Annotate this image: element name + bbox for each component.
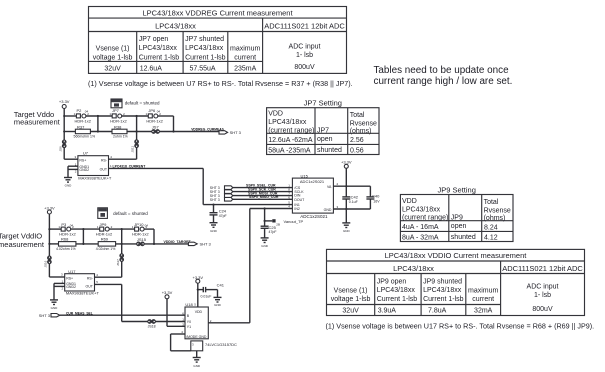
power +3.3V (ADC VA) (341, 160, 352, 197)
svg-text:LPC4318_CURRENT: LPC4318_CURRENT (113, 165, 147, 169)
svg-text:+3.3V: +3.3V (59, 99, 70, 104)
svg-text:SSP0_MISO_CUR: SSP0_MISO_CUR (249, 195, 279, 199)
wire CUR_MEAS_SEL (60, 314, 185, 316)
pin numbers IN1 IN2 (288, 201, 290, 209)
svg-text:SHT 3: SHT 3 (39, 313, 51, 318)
wire top row lower (49, 228, 154, 230)
svg-text:P3: P3 (61, 222, 67, 227)
ground C25 (261, 238, 269, 248)
wire vertical junction B (136, 116, 138, 132)
svg-text:(ohms): (ohms) (350, 128, 372, 135)
svg-text:Total: Total (350, 112, 365, 119)
svg-text:Y1: Y1 (187, 325, 191, 329)
ground C24 (210, 223, 218, 233)
wire bottom row lower (49, 243, 188, 245)
op-amp U17 current sense amp (65, 269, 100, 296)
resistor R37 (74, 125, 96, 139)
svg-text:GND2: GND2 (79, 168, 89, 172)
svg-text:HDR-1x2: HDR-1x2 (132, 232, 149, 237)
jumper JS18 (148, 320, 156, 329)
ground U7 (64, 178, 72, 188)
table: JP9 Setting (400, 185, 513, 241)
svg-text:SHT 3: SHT 3 (200, 242, 212, 247)
svg-text:8.24: 8.24 (484, 225, 498, 232)
ADC U15 ADC1x2S021 (292, 173, 333, 219)
jumper JS11 (131, 132, 139, 160)
capacitor C41 (198, 282, 225, 298)
wire IN1 to ADC (203, 204, 292, 206)
svg-text:74LVC1G3157DC: 74LVC1G3157DC (205, 342, 237, 347)
resistor R69 (96, 237, 116, 252)
svg-text:measurement: measurement (14, 117, 61, 126)
svg-text:LPC43/18xx: LPC43/18xx (139, 45, 178, 52)
svg-text:0.1uF: 0.1uF (349, 200, 358, 204)
svg-text:32uV: 32uV (342, 308, 359, 315)
svg-text:JP9: JP9 (100, 222, 108, 227)
svg-text:VDD: VDD (402, 198, 417, 205)
node C41 junction (197, 289, 199, 291)
resistor R68 (56, 237, 76, 252)
svg-text:RS+: RS+ (66, 277, 73, 281)
label: Target Vddo measurement (14, 110, 61, 126)
svg-text:Total: Total (484, 199, 499, 206)
svg-text:GND: GND (199, 335, 207, 339)
wire IN2 vertical from U18 (249, 209, 251, 323)
capacitor C40 (366, 186, 380, 209)
svg-text:LPC43/18xx: LPC43/18xx (268, 119, 307, 126)
svg-text:(1) Vsense voltage is between: (1) Vsense voltage is between U17 RS+ to… (326, 321, 595, 330)
label: Target VddIO measurement (0, 232, 45, 249)
svg-text:default = shunted: default = shunted (125, 100, 160, 105)
node VA junction (345, 185, 347, 187)
svg-text:8uA - 32mA: 8uA - 32mA (402, 235, 439, 242)
wire U17 gnd pins (54, 279, 65, 300)
svg-text:800uV: 800uV (294, 64, 315, 71)
shunt icon JP7 (111, 99, 122, 108)
svg-text:LPC43/18xx: LPC43/18xx (185, 45, 224, 52)
op-amp U7 current sense amp (78, 151, 112, 181)
svg-text:(ohms): (ohms) (484, 215, 506, 222)
capacitor C24 (210, 205, 227, 223)
svg-text:12.6uA: 12.6uA (140, 66, 163, 73)
svg-text:16V: 16V (373, 200, 380, 204)
svg-text:0.01uF: 0.01uF (201, 295, 212, 299)
svg-text:JP9 shunted: JP9 shunted (423, 279, 462, 286)
svg-text:maximum: maximum (468, 288, 499, 295)
jumper JS17 (116, 254, 124, 266)
svg-text:4uA - 16mA: 4uA - 16mA (402, 224, 439, 231)
svg-text:Vanout_TP: Vanout_TP (284, 219, 304, 224)
svg-text:Current 1-lsb: Current 1-lsb (139, 54, 180, 61)
svg-text:JP7: JP7 (317, 127, 329, 134)
capacitor C25 (261, 225, 277, 238)
wire vertical right end lower (153, 229, 155, 244)
svg-text:0.56: 0.56 (350, 148, 364, 155)
capacitor C42 (342, 195, 358, 210)
wire bottom row upper (64, 131, 219, 133)
node junction dots upper (63, 115, 174, 133)
svg-text:JP7 Setting: JP7 Setting (304, 99, 342, 108)
svg-text:voltage 1-lsb: voltage 1-lsb (93, 54, 133, 61)
svg-text:ADC111S021 12bit ADC: ADC111S021 12bit ADC (264, 22, 345, 31)
wire SSP0_SCK_CUR (233, 187, 293, 191)
svg-text:7.8uA: 7.8uA (428, 308, 447, 315)
table: LPC43/18xx VDDREG Current measurement (89, 7, 347, 74)
resistor R38 (112, 125, 128, 139)
svg-text:C41: C41 (217, 282, 225, 287)
svg-text:VA: VA (327, 185, 332, 189)
jumper JP6 (146, 108, 164, 124)
svg-text:JP7 shunted: JP7 shunted (185, 36, 224, 43)
wire SSP0_MISO_CUR (233, 195, 293, 199)
svg-text:voltage 1-lsb: voltage 1-lsb (331, 296, 371, 303)
svg-text:U7: U7 (83, 151, 89, 156)
svg-text:32mA: 32mA (474, 308, 493, 315)
svg-text:HDR-1x2: HDR-1x2 (75, 119, 92, 124)
svg-text:ADC1x2S021: ADC1x2S021 (300, 179, 325, 184)
jumper JS16 (44, 256, 52, 267)
ground ADC (342, 209, 350, 233)
svg-text:Vsense (1): Vsense (1) (96, 46, 130, 53)
svg-text:JS11: JS11 (131, 146, 135, 153)
svg-text:RS-: RS- (101, 159, 108, 163)
svg-text:current range high / low are s: current range high / low are set. (374, 76, 513, 87)
svg-text:LPC43/18xx: LPC43/18xx (377, 287, 416, 294)
svg-text:VDD: VDD (195, 310, 203, 314)
power +3.3V (upper rail) (59, 99, 70, 108)
sheet flags SPI (SHT 3) (210, 186, 233, 202)
net CUR_MEAS_SEL input flag (39, 311, 93, 318)
svg-text:shunted: shunted (317, 147, 342, 154)
svg-text:ADC input: ADC input (527, 284, 559, 291)
svg-text:2B: 2B (276, 222, 280, 226)
svg-text:VDDIO_TARGET: VDDIO_TARGET (164, 240, 192, 244)
svg-text:GND: GND (214, 303, 222, 307)
svg-text:LPC43/18xx: LPC43/18xx (423, 287, 462, 294)
shunt icon JP9 (98, 208, 108, 219)
svg-text:GND: GND (261, 244, 269, 248)
svg-text:VDD: VDD (268, 111, 283, 118)
svg-text:/MODE: /MODE (186, 335, 198, 339)
svg-text:LPC43/18xx VDDREG Current meas: LPC43/18xx VDDREG Current measurement (142, 9, 293, 18)
node junction dots lower (48, 228, 155, 245)
svg-text:RS-: RS- (87, 277, 94, 281)
svg-text:Y0: Y0 (187, 320, 191, 324)
svg-text:MAX9938TEUK+T: MAX9938TEUK+T (66, 291, 100, 296)
svg-text:HDR-1x2: HDR-1x2 (146, 119, 163, 124)
svg-text:4.12: 4.12 (484, 235, 498, 242)
svg-text:U15: U15 (301, 173, 309, 178)
jumper JS7 (152, 125, 160, 134)
wire RS- into U17 (95, 273, 122, 277)
wire vertical junction C (82, 229, 84, 244)
svg-text:JP7 open: JP7 open (139, 36, 169, 43)
svg-text:maximum: maximum (230, 46, 261, 53)
wire vertical junction D (121, 229, 123, 277)
svg-text:shunted: shunted (451, 234, 476, 241)
svg-text:2ohm 1%: 2ohm 1% (113, 134, 128, 138)
wire U7 gnd pins (68, 162, 78, 177)
mux U18 74LVC1G3157DC (182, 302, 208, 339)
svg-text:JP9 Setting: JP9 Setting (438, 185, 476, 194)
svg-text:OUT: OUT (100, 167, 108, 171)
svg-text:open: open (317, 136, 333, 143)
wire /MODE loop (171, 330, 191, 351)
svg-text:Current 1-lsb: Current 1-lsb (377, 296, 418, 303)
svg-text:C24: C24 (219, 209, 227, 214)
svg-text:U18: U18 (185, 302, 193, 307)
svg-text:GND: GND (65, 184, 73, 188)
svg-text:560mohm 1%: 560mohm 1% (74, 134, 96, 138)
svg-text:SHT 3: SHT 3 (230, 130, 242, 135)
svg-text:Current 1-lsb: Current 1-lsb (423, 296, 464, 303)
svg-text:RS+: RS+ (79, 159, 86, 163)
svg-text:JP9 open: JP9 open (377, 279, 407, 286)
node GND junction (345, 208, 347, 210)
svg-text:measurement: measurement (0, 240, 45, 249)
jumper JP10 (132, 222, 150, 237)
svg-text:ADC input: ADC input (289, 44, 321, 51)
svg-text:U17: U17 (68, 269, 76, 274)
wire vertical right end upper (173, 116, 175, 132)
svg-text:JS17: JS17 (116, 259, 120, 266)
svg-text:GND: GND (193, 364, 201, 368)
svg-text:JS18: JS18 (148, 325, 156, 329)
wire U18 output to ADC IN2 (208, 319, 250, 323)
svg-text:LPC43/18xx: LPC43/18xx (402, 206, 441, 213)
wire RS- into U7 (109, 155, 137, 159)
net VDDIO_TARGET flag (164, 240, 212, 247)
wire RS+ into U17 (49, 273, 64, 277)
svg-text:ADC1x2S021: ADC1x2S021 (300, 214, 328, 219)
wire top row upper (64, 115, 173, 117)
svg-text:default = shunted: default = shunted (113, 211, 148, 216)
svg-text:(current range): (current range) (402, 215, 448, 222)
wire SSP0_SSEL_CUR (233, 183, 293, 187)
jumper JP9 (96, 222, 113, 237)
table: JP7 Setting (267, 99, 379, 155)
node C24 junction (212, 204, 214, 206)
node IN2 branch (264, 207, 266, 209)
power +3.3V (U18 input) (162, 290, 185, 326)
ground U17 (50, 300, 58, 310)
wire SSP0_MOSI_CUR (233, 191, 293, 195)
svg-text:GND: GND (324, 208, 332, 212)
ground U18 (193, 351, 201, 368)
svg-text:Vsense (1): Vsense (1) (334, 288, 368, 295)
svg-text:235mA: 235mA (234, 66, 257, 73)
svg-text:1- lsb: 1- lsb (534, 292, 551, 299)
svg-text:DOUT: DOUT (294, 198, 305, 202)
wire JS18 row (122, 321, 185, 323)
svg-text:Rvsense: Rvsense (350, 121, 377, 128)
svg-text:ADC111S021 12bit ADC: ADC111S021 12bit ADC (502, 264, 583, 273)
svg-text:58uA -235mA: 58uA -235mA (268, 148, 311, 155)
svg-text:LPC43/18xx: LPC43/18xx (393, 264, 434, 273)
svg-text:current: current (472, 296, 494, 303)
jumper JP7 (109, 108, 127, 124)
svg-text:Rvsense: Rvsense (484, 208, 511, 215)
svg-text:(current range): (current range) (268, 127, 314, 134)
svg-text:+3.3V: +3.3V (162, 290, 173, 295)
svg-text:57.55uA: 57.55uA (190, 66, 216, 73)
svg-text:GND2: GND2 (66, 285, 76, 289)
svg-text:47pF: 47pF (269, 230, 277, 234)
wire left rail upper (63, 109, 65, 160)
svg-text:MAX9938TEUK+T: MAX9938TEUK+T (78, 176, 112, 181)
wire RS+ into U7 (64, 155, 78, 159)
svg-text:R68: R68 (61, 237, 69, 242)
svg-text:IN2: IN2 (294, 207, 300, 211)
power +3.3V (lower rail) (44, 206, 55, 215)
svg-text:JP7: JP7 (112, 108, 120, 113)
svg-text:JP6: JP6 (148, 108, 156, 113)
svg-text:12.6uA -62mA: 12.6uA -62mA (268, 137, 313, 144)
net VDDREG_CURMEAS flag (191, 127, 241, 135)
svg-text:GND: GND (343, 229, 351, 233)
wire IN2 to ADC (250, 208, 293, 210)
ground C41 (214, 290, 222, 308)
wire VA (333, 182, 370, 186)
svg-text:800uV: 800uV (532, 306, 553, 313)
svg-text:current: current (234, 54, 256, 61)
svg-text:Current 1-lsb: Current 1-lsb (185, 54, 226, 61)
svg-text:JP10: JP10 (134, 222, 144, 227)
power +3.3V (U18 VDD) (193, 275, 204, 307)
table: LPC43/18xx VDDIO Current measurement (327, 249, 585, 315)
wire U17 OUT down (95, 280, 122, 321)
svg-text:(1) Vsense voltage is between: (1) Vsense voltage is between U7 RS+ to … (88, 79, 353, 88)
svg-text:LPC43/18xx VDDIO Current measu: LPC43/18xx VDDIO Current measurement (385, 251, 528, 260)
svg-text:C42: C42 (351, 195, 359, 200)
sub-box U18 pad (191, 341, 203, 351)
svg-text:LPC43/18xx: LPC43/18xx (155, 22, 196, 31)
svg-text:4.02ohm 1%: 4.02ohm 1% (96, 247, 116, 251)
svg-text:4.02ohm 1%: 4.02ohm 1% (56, 247, 76, 251)
svg-text:P2: P2 (77, 108, 83, 113)
wire U7 OUT net LPC4318_CURR (109, 164, 204, 204)
wire ADC GND (333, 205, 370, 209)
svg-text:47pF: 47pF (219, 214, 227, 218)
jumper P2 (74, 108, 92, 124)
svg-text:open: open (451, 223, 467, 230)
wire IN2 stub down (264, 209, 266, 227)
svg-text:C40: C40 (372, 194, 380, 199)
svg-text:2.56: 2.56 (350, 137, 364, 144)
svg-text:Tables need to be update once: Tables need to be update once (374, 65, 510, 76)
svg-text:JS15: JS15 (137, 237, 147, 242)
svg-text:JS16: JS16 (44, 260, 48, 267)
svg-text:OUT: OUT (86, 284, 94, 288)
jumper JS15 (137, 237, 147, 246)
wire vertical junction A (97, 116, 99, 132)
svg-text:HDR-1x2: HDR-1x2 (110, 119, 127, 124)
svg-text:32uV: 32uV (104, 66, 121, 73)
jumper P3 (58, 222, 76, 237)
svg-text:GND: GND (210, 229, 218, 233)
svg-text:JP9: JP9 (451, 215, 463, 222)
test point Vanout_TP (264, 219, 304, 226)
svg-text:SHT 3: SHT 3 (210, 198, 220, 202)
svg-text:JS6: JS6 (58, 146, 62, 152)
svg-text:GND: GND (51, 306, 59, 310)
svg-text:JS7: JS7 (152, 125, 160, 130)
wire left rail lower (48, 214, 50, 277)
svg-text:1- lsb: 1- lsb (296, 52, 313, 59)
svg-text:R69: R69 (101, 237, 109, 242)
jumper JS6 (58, 140, 66, 151)
svg-text:3.9uA: 3.9uA (378, 308, 397, 315)
note: tables need update (374, 65, 513, 87)
